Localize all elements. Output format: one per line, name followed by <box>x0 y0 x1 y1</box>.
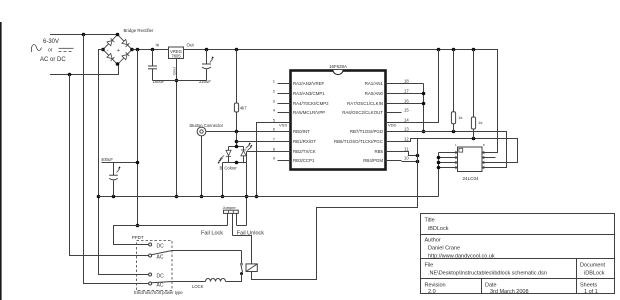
svg-text:+: + <box>117 48 120 54</box>
svg-text:Gnd: Gnd <box>171 67 176 75</box>
svg-text:DC: DC <box>157 274 165 280</box>
wire AC line 1 <box>50 34 118 36</box>
wire jumper right pin to rail drop <box>237 225 247 227</box>
svg-text:PPDT: PPDT <box>132 235 144 240</box>
svg-text:1k: 1k <box>458 115 462 120</box>
jumper J1 <box>223 205 239 235</box>
node RB2 drop at rail <box>245 195 249 199</box>
svg-text:2.0: 2.0 <box>428 289 436 295</box>
svg-text:RA7/OSC1/CLKIN: RA7/OSC1/CLKIN <box>347 101 383 106</box>
svg-text:RB6/T1OSO/T1CKI/PGC: RB6/T1OSO/T1CKI/PGC <box>334 139 383 144</box>
svg-text:RA1/AN1: RA1/AN1 <box>365 81 384 86</box>
relay contact <box>226 251 244 282</box>
capacitor 220uF <box>199 50 214 85</box>
wire relay drive loop <box>252 139 418 280</box>
node VCC tap x=236.5 <box>235 48 239 52</box>
wire RA7 pin16 <box>402 103 424 105</box>
wire VDD pin14 to rail <box>402 50 439 123</box>
node VREG gnd at cap link <box>175 79 179 83</box>
wire ground rail <box>99 196 439 198</box>
node bridge minus at ground rail <box>97 195 101 199</box>
capacitor 100uF <box>148 50 165 85</box>
iButton connector <box>190 123 224 136</box>
node RA bus pin16 <box>422 102 426 106</box>
svg-text:11: 11 <box>404 146 409 151</box>
node bridge plus at fail-lock line <box>136 224 140 228</box>
node VSS at rail <box>255 195 259 199</box>
wire RA bus vertical <box>423 84 425 132</box>
svg-text:1k: 1k <box>478 120 482 125</box>
svg-text:VDD: VDD <box>388 123 397 128</box>
svg-text:Revision: Revision <box>425 282 446 288</box>
svg-text:RA6/OSC2/CLKOUT: RA6/OSC2/CLKOUT <box>342 110 383 115</box>
svg-text:RA2/AN2/VREF: RA2/AN2/VREF <box>293 81 325 86</box>
svg-text:18: 18 <box>404 78 409 83</box>
node 4k7 at data line <box>235 130 239 134</box>
svg-text:File: File <box>425 262 434 268</box>
svg-text:10: 10 <box>404 155 409 160</box>
svg-text:iButton Connector: iButton Connector <box>190 123 224 128</box>
IC U1 PIC16F628A <box>291 64 386 170</box>
svg-text:http://www.dandycool.co.uk: http://www.dandycool.co.uk <box>428 254 495 260</box>
bridge rectifier BR1 <box>103 28 154 64</box>
power source 6-30V AC or DC <box>32 39 74 63</box>
wire cap ground link <box>153 80 207 82</box>
node bridge plus at 400uF <box>136 161 140 165</box>
svg-text:Electronic/Soft power type: Electronic/Soft power type <box>134 290 183 295</box>
node VCC tap x=137.5 <box>136 48 140 52</box>
svg-text:RB5: RB5 <box>374 149 383 154</box>
title block <box>421 214 615 295</box>
svg-text:-: - <box>107 48 109 54</box>
svg-text:Out: Out <box>187 43 195 48</box>
svg-text:15: 15 <box>404 107 409 112</box>
svg-text:Bridge Rectifier: Bridge Rectifier <box>124 28 155 33</box>
svg-text:.NE\Desktop\Instructables\ibdl: .NE\Desktop\Instructables\ibdlock schema… <box>428 270 547 276</box>
inductor LOCK coil <box>172 279 226 290</box>
node AC2 tap <box>68 73 72 77</box>
wire iButton ground <box>201 136 203 197</box>
node 24LC04 left pin y=167.5 <box>437 166 441 170</box>
node VCC tap x=152.5 <box>151 48 155 52</box>
resistor R2 1k <box>471 50 482 139</box>
pin names right <box>334 81 384 163</box>
node LED gnd at rail <box>221 195 225 199</box>
node bridge top <box>116 33 120 37</box>
wire 24LC04 ground vertical <box>438 153 440 197</box>
wire RB1 to LED <box>237 141 291 143</box>
svg-text:RB7/T1OSI/PGD: RB7/T1OSI/PGD <box>350 129 383 134</box>
svg-text:Sheets: Sheets <box>580 282 597 288</box>
bi-colour LED D1 <box>218 132 253 171</box>
node 24LC04 left pin y=157.5 <box>437 156 441 160</box>
svg-text:17: 17 <box>404 88 409 93</box>
node VREG gnd at rail <box>175 195 179 199</box>
node RA bus pin17 <box>422 92 426 96</box>
svg-text:RA4/T0CKI/CMP2: RA4/T0CKI/CMP2 <box>293 101 329 106</box>
svg-text:Document: Document <box>580 262 606 268</box>
svg-text:AC or DC: AC or DC <box>40 57 66 63</box>
resistor 4k7 <box>234 50 247 132</box>
svg-text:16: 16 <box>404 98 409 103</box>
svg-text:DC: DC <box>157 244 165 250</box>
capacitor 400uF <box>101 157 138 197</box>
svg-text:iDBLock: iDBLock <box>584 270 605 276</box>
wire DPDT upper output to relay contact <box>172 250 242 252</box>
page edge <box>0 22 2 300</box>
svg-text:AC: AC <box>157 283 164 289</box>
relay coil K1 <box>246 264 257 272</box>
svg-text:RB1/RX/DT: RB1/RX/DT <box>293 139 316 144</box>
node bridge left <box>101 48 105 52</box>
node 24LC04 left pin y=162.5 <box>437 161 441 165</box>
svg-text:16F628A: 16F628A <box>329 64 347 69</box>
svg-text:LOCK: LOCK <box>192 284 204 289</box>
resistor R1 1k <box>451 50 462 132</box>
node R2 at SCL <box>472 137 476 141</box>
svg-text:6-30V: 6-30V <box>43 39 59 45</box>
svg-text:220uF: 220uF <box>199 79 211 84</box>
svg-text:7805: 7805 <box>171 53 181 58</box>
svg-text:Title: Title <box>425 218 435 224</box>
svg-text:24LC04: 24LC04 <box>463 176 480 181</box>
svg-text:1 of 1: 1 of 1 <box>584 289 598 295</box>
wire RB2 through LED right <box>247 151 291 153</box>
svg-text:or: or <box>48 48 53 54</box>
wire VREG ground <box>176 59 178 197</box>
wire bridge plus drop <box>137 50 139 226</box>
svg-text:RA3/AN3/CMP1: RA3/AN3/CMP1 <box>293 91 325 96</box>
node bridge bottom <box>116 62 120 66</box>
DPDT switch block <box>132 235 184 295</box>
node VCC tap x=438.5 <box>437 48 441 52</box>
wire iButton data to RB0 <box>206 131 291 133</box>
wire VSS to ground rail <box>257 123 291 197</box>
svg-text:4k7: 4k7 <box>240 106 247 111</box>
svg-text:3rd March 2008: 3rd March 2008 <box>490 289 529 295</box>
svg-text:Fail Lock: Fail Lock <box>201 230 223 236</box>
wire RB2 drop to fail-unlock line <box>246 152 248 226</box>
node RA bus at SDA line <box>422 130 426 134</box>
wire fail-lock line to DC contact 1 <box>114 226 228 245</box>
node pin10 at relay drive <box>416 160 420 164</box>
node bridge right <box>130 48 134 52</box>
wire jumper middle pin to relay coil <box>233 236 252 264</box>
svg-text:12: 12 <box>404 136 409 141</box>
svg-text:RB3/CCP1: RB3/CCP1 <box>293 158 315 163</box>
node VCC tap x=206.5 <box>205 48 209 52</box>
wire AC1 drop to switch AC contact 2 <box>84 35 149 284</box>
svg-text:400uF: 400uF <box>101 157 113 162</box>
svg-text:RB2/TX/CK: RB2/TX/CK <box>293 149 316 154</box>
node iButton gnd at rail <box>200 195 204 199</box>
node VCC tap x=453.5 <box>452 48 456 52</box>
pin stubs 1-9 <box>278 84 291 161</box>
pin stubs 18-10 <box>386 84 402 161</box>
node AC1 tap <box>82 33 86 37</box>
svg-text:VSS: VSS <box>279 123 287 128</box>
wire VCC rail <box>132 50 498 153</box>
svg-text:Author: Author <box>425 238 441 244</box>
wire SCL pin12 to 24LC04 pin6 <box>402 139 518 163</box>
svg-text:100uF: 100uF <box>153 79 165 84</box>
svg-text:Date: Date <box>485 282 497 288</box>
wire RB4 pin10 to relay drive <box>402 161 418 163</box>
wire RB5 pin11 to relay drive <box>402 152 418 156</box>
IC U2 24LC04 <box>455 143 485 181</box>
svg-text:RA5/MCLR/VPP: RA5/MCLR/VPP <box>293 110 325 115</box>
node pin11 at relay drive <box>416 154 420 158</box>
regulator VREG 7805 <box>156 43 195 76</box>
wire 24LC04 left pins <box>439 151 485 169</box>
pin names left <box>293 81 329 163</box>
svg-text:RA0/AN0: RA0/AN0 <box>365 91 384 96</box>
svg-text:14: 14 <box>404 117 409 122</box>
wire AC2 drop to switch AC contact 1 <box>70 75 149 256</box>
wire LED to ground rail <box>222 163 224 197</box>
svg-text:RB4/PGM: RB4/PGM <box>363 158 383 163</box>
wire AC line 2 <box>50 64 119 75</box>
node VCC tap x=473.5 <box>472 48 476 52</box>
wire SDA pin13 to 24LC04 pin5 <box>402 132 507 168</box>
node R1 at SDA <box>452 130 456 134</box>
node 400uF at rail <box>112 195 116 199</box>
wire bridge minus to ground rail and switch DC contact 2 <box>99 50 149 275</box>
wire RA1 pin18 <box>402 83 424 85</box>
svg-text:Daniel Crane: Daniel Crane <box>428 246 460 252</box>
svg-text:Jumper: Jumper <box>223 205 237 210</box>
wire RA0 pin17 <box>402 93 424 95</box>
wire 24LC04 pin7 stub <box>482 157 496 159</box>
svg-text:iBDLock: iBDLock <box>428 226 449 232</box>
svg-text:AC: AC <box>157 255 164 261</box>
svg-text:In: In <box>156 43 160 48</box>
svg-text:13: 13 <box>404 126 409 131</box>
svg-text:RB0/INT: RB0/INT <box>293 129 310 134</box>
